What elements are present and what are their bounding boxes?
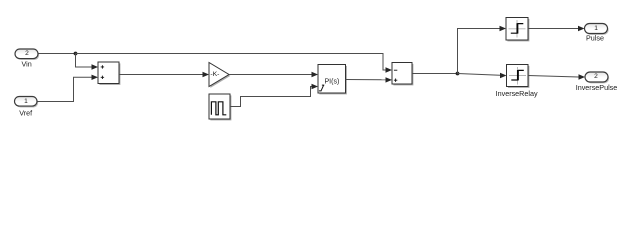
relay block InverseRelay xyxy=(508,66,530,88)
svg-text:Pulse: Pulse xyxy=(586,34,604,43)
junction dot B xyxy=(456,72,460,76)
svg-text:PI(s): PI(s) xyxy=(325,78,340,85)
svg-text:2: 2 xyxy=(25,50,29,57)
junction dot A xyxy=(74,52,78,56)
wire PI(s) to Sum2 input 2 xyxy=(346,79,386,81)
wire Vin to junction xyxy=(39,53,76,55)
outport 1 Pulse xyxy=(586,25,609,35)
wire InverseRelay to outport 2 xyxy=(528,76,579,78)
svg-text:1: 1 xyxy=(594,25,598,32)
PID controller block PI(s) xyxy=(319,66,347,95)
svg-text:2: 2 xyxy=(594,73,598,80)
wire junction B up to Relay xyxy=(458,29,500,74)
wire Relay to outport 1 xyxy=(528,28,578,30)
svg-text:InverseRelay: InverseRelay xyxy=(496,89,538,98)
inport 2 Vin xyxy=(16,50,39,60)
svg-text:InversePulse: InversePulse xyxy=(576,83,618,92)
sum block Sum2 xyxy=(393,64,413,86)
inport 1 Vref xyxy=(16,98,39,108)
reset trigger icon xyxy=(319,85,324,91)
wire long feedback Vin to Sum2 input 1 xyxy=(76,54,386,71)
wire Vref to Sum1 input 2 xyxy=(38,77,92,101)
pulse generator block xyxy=(210,95,231,120)
sum block Sum1 xyxy=(99,63,120,85)
wire Sum1 to Gain xyxy=(119,74,203,76)
wire Gain to PI(s) input 1 xyxy=(229,74,312,76)
relay block (Pulse path) xyxy=(507,19,529,42)
wire Sum2 to junction B xyxy=(412,73,458,75)
outport 2 InversePulse xyxy=(586,73,609,83)
wire PulseGenerator to PI(s) reset input xyxy=(230,87,312,107)
svg-text:1: 1 xyxy=(24,98,28,105)
svg-text:Vref: Vref xyxy=(19,108,32,117)
wire junction B to InverseRelay xyxy=(458,74,501,76)
gain block -K- xyxy=(210,64,230,88)
svg-text:-K-: -K- xyxy=(210,71,219,78)
wire junction to Sum1 input 1 xyxy=(76,54,92,68)
svg-text:Vin: Vin xyxy=(21,60,31,69)
